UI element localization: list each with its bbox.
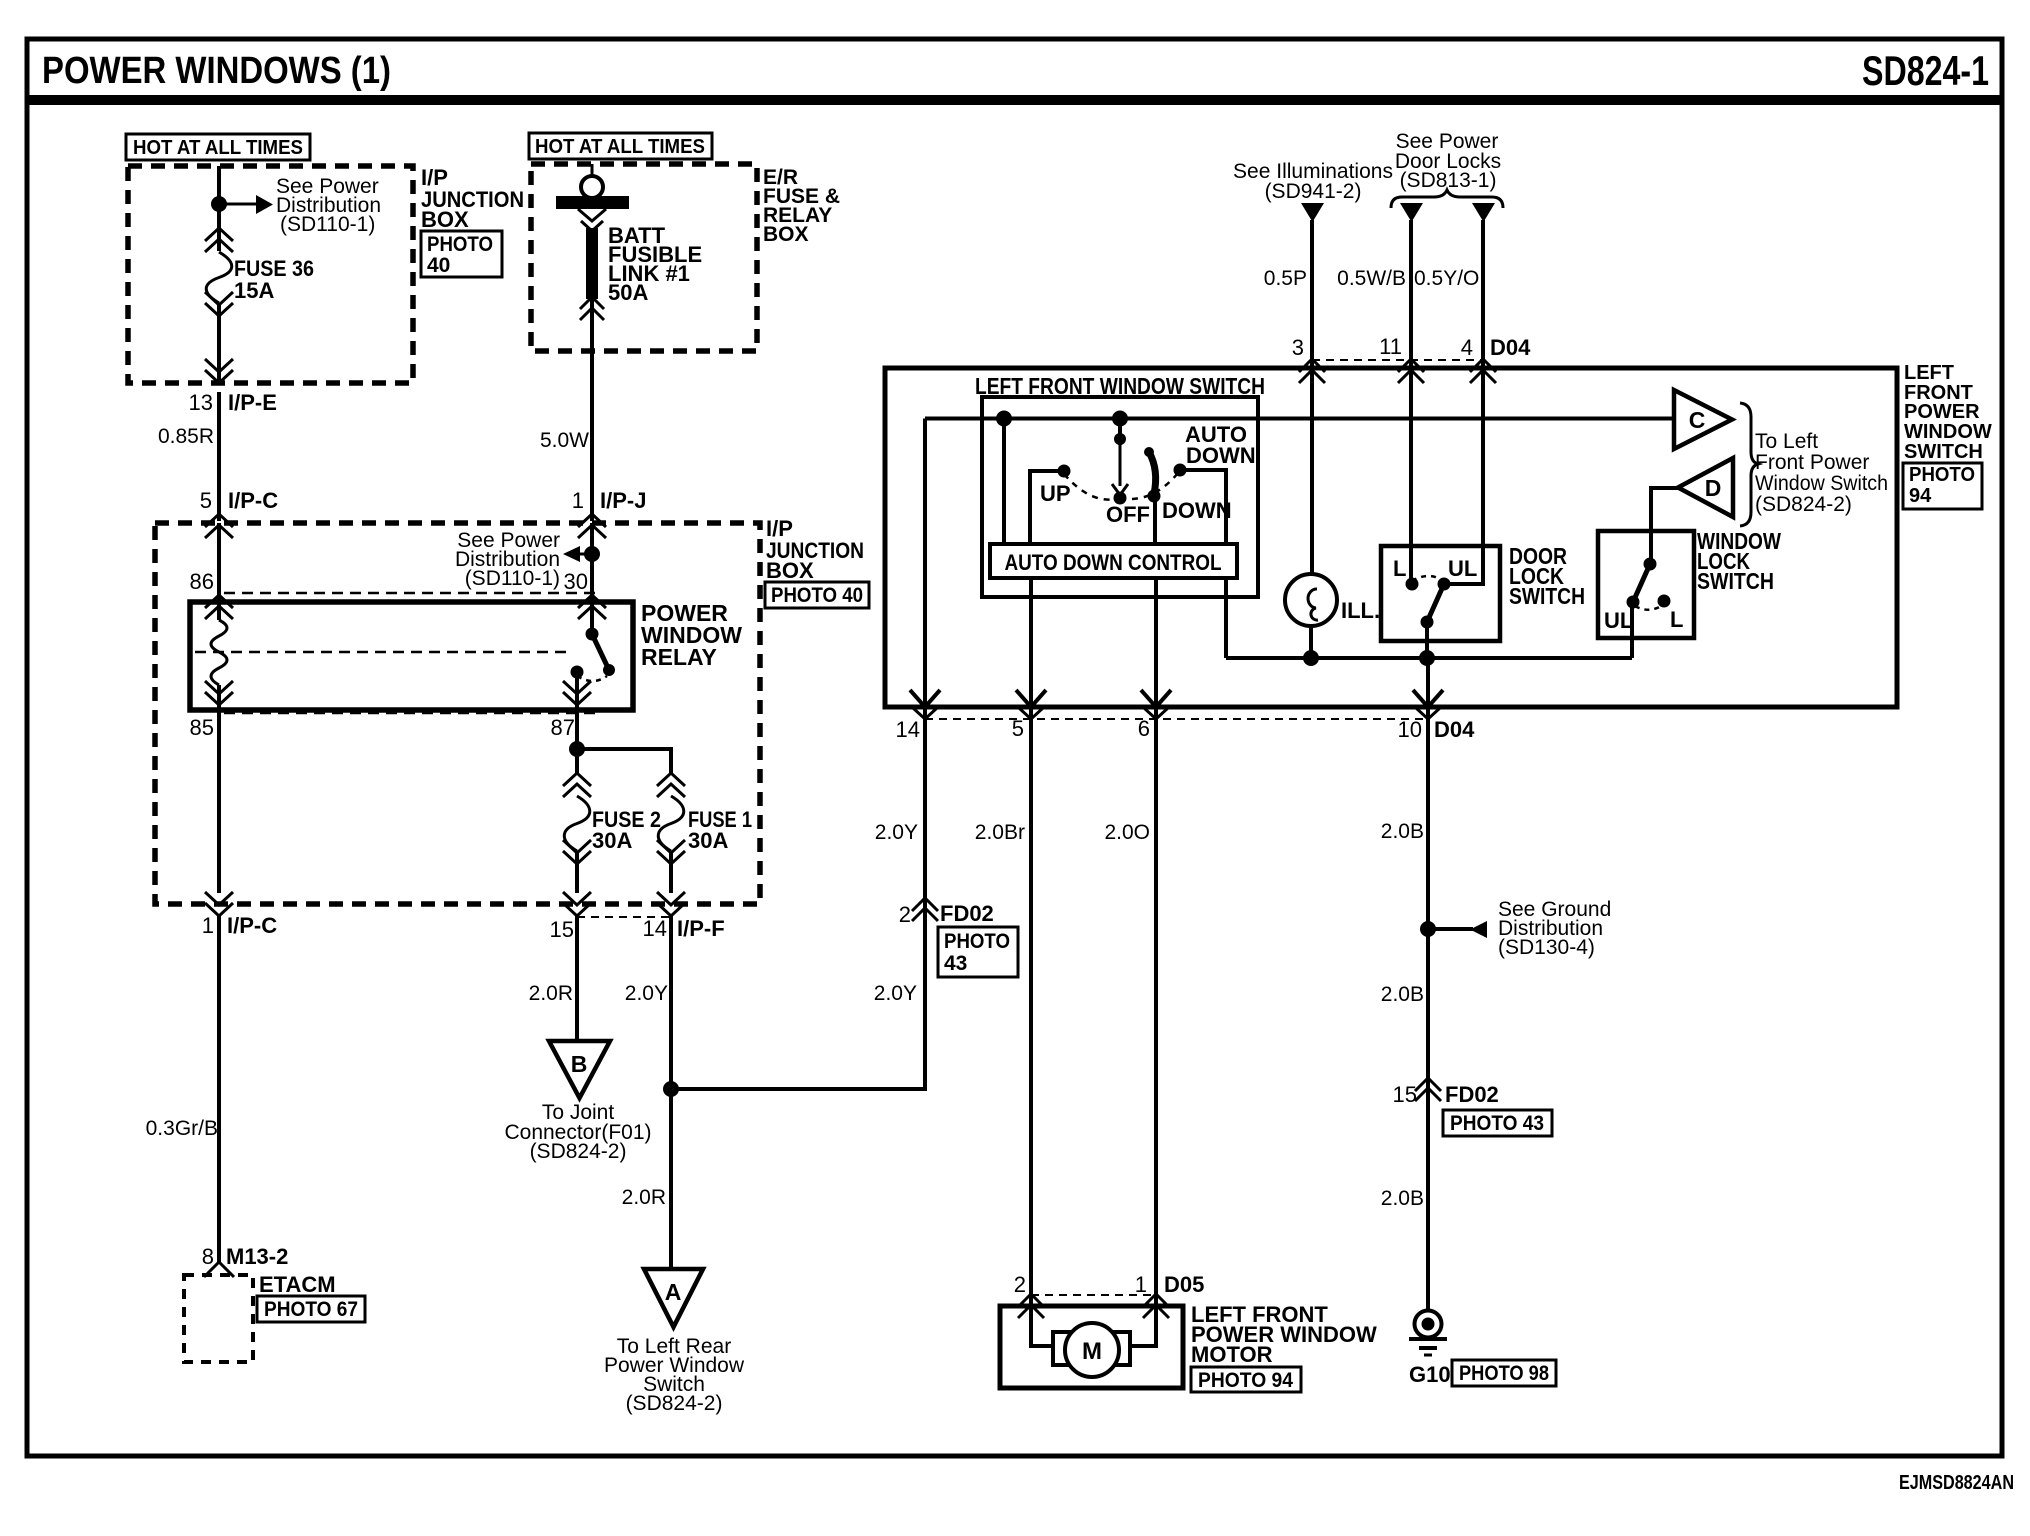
label box PHOTO 43 (pin 15) (1443, 1110, 1552, 1136)
svg-text:8: 8 (202, 1244, 214, 1269)
svg-text:0.5W/B: 0.5W/B (1337, 267, 1406, 290)
svg-text:I/P-C: I/P-C (228, 488, 278, 513)
relay internal dashed link (195, 651, 569, 654)
motor M left front power window motor box (1000, 1306, 1183, 1388)
pin 85 (205, 681, 233, 705)
label box PHOTO 40 (upper) (421, 231, 502, 277)
auto down control box (990, 544, 1237, 578)
svg-text:5.0W: 5.0W (540, 429, 589, 452)
svg-text:UL: UL (1448, 556, 1477, 581)
door lock travel arc (1412, 576, 1444, 581)
svg-text:(SD824-2): (SD824-2) (1755, 493, 1852, 516)
left front power window switch outer box (885, 368, 1897, 707)
svg-text:C: C (1689, 407, 1706, 433)
brace over door lock feeds (1391, 190, 1503, 208)
svg-text:2.0R: 2.0R (529, 982, 573, 1005)
svg-text:2.0R: 2.0R (622, 1186, 666, 1209)
label box PHOTO 67 (257, 1296, 365, 1322)
wire: I/P-C pin 5 to relay pin 86 (217, 523, 221, 620)
window lock switch box (1598, 531, 1694, 638)
label HOT AT ALL TIMES (left) (126, 134, 310, 160)
wire: relay 87 down to fuse junction (575, 678, 579, 773)
connector I/P-E pin 13 (205, 359, 233, 383)
svg-text:5: 5 (200, 488, 212, 513)
connector triangle A (644, 1269, 703, 1327)
wire: door lock UL feed (1450, 368, 1483, 584)
svg-text:BOX: BOX (763, 223, 809, 246)
svg-text:2.0B: 2.0B (1381, 983, 1424, 1006)
wire: door lock to bottom bus (1425, 622, 1429, 658)
svg-text:PHOTO 40: PHOTO 40 (771, 584, 863, 607)
relay coil (211, 620, 227, 685)
connector I/P-C pin 1 (bottom) (205, 892, 233, 916)
wire 5.0W (590, 299, 594, 521)
svg-text:UP: UP (1040, 481, 1071, 506)
svg-text:FD02: FD02 (940, 901, 994, 926)
svg-text:3: 3 (1292, 335, 1304, 360)
brace for C / D (1740, 403, 1758, 526)
wire: lamp to bottom bus (1309, 626, 1313, 658)
wire 2.0O (pin 6) (1154, 707, 1158, 1306)
svg-text:FD02: FD02 (1445, 1082, 1499, 1107)
feed arrow (door lock 1) (1400, 203, 1423, 222)
svg-text:2.0Y: 2.0Y (874, 982, 917, 1005)
connector D05 row pins 2 / 1 (1031, 1294, 1155, 1296)
svg-text:2: 2 (1014, 1272, 1026, 1297)
svg-text:2.0Y: 2.0Y (875, 821, 918, 844)
svg-text:15A: 15A (234, 278, 274, 303)
svg-text:40: 40 (427, 254, 450, 277)
motor brush tabs (1053, 1332, 1073, 1365)
wire 2.0R to triangle A (669, 1089, 673, 1269)
wire: relay 85 down to I/P-C pin 1 (217, 685, 221, 893)
window lock L contact (1658, 595, 1671, 608)
svg-text:LEFT: LEFT (1904, 362, 1954, 384)
wire 0.5W/B (1409, 220, 1413, 368)
svg-text:2.0Br: 2.0Br (975, 821, 1025, 844)
svg-text:M: M (1082, 1338, 1102, 1365)
node: ground distribution tap (1420, 921, 1436, 937)
wire: C bus across switch (925, 417, 1674, 421)
door lock lever (1427, 584, 1444, 622)
svg-text:30: 30 (564, 569, 588, 594)
svg-text:15: 15 (550, 917, 574, 942)
node: auto down control feed (996, 411, 1012, 427)
pin arrow at x=925 (910, 690, 940, 707)
I/P junction box (lower) dashed boundary (155, 523, 760, 904)
svg-text:EJMSD8824AN: EJMSD8824AN (1899, 1472, 2014, 1494)
wire: door lock L feed (1409, 368, 1413, 584)
switch DOWN contact (1174, 464, 1187, 477)
node: ground feed junction (1419, 650, 1435, 666)
svg-text:SWITCH: SWITCH (1904, 441, 1983, 463)
relay switch NO contact (571, 666, 584, 679)
svg-text:2.0B: 2.0B (1381, 1187, 1424, 1210)
svg-text:BOX: BOX (421, 207, 469, 232)
svg-text:6: 6 (1138, 716, 1150, 741)
wire: pin 5 riser (1029, 578, 1033, 707)
connector triangle C (1674, 390, 1732, 449)
door lock L contact (1406, 578, 1419, 591)
svg-text:SWITCH: SWITCH (1509, 583, 1585, 609)
svg-text:To Left: To Left (1755, 430, 1818, 453)
wire 0.85R (217, 392, 221, 521)
svg-text:B: B (571, 1051, 588, 1077)
svg-text:RELAY: RELAY (641, 644, 717, 670)
svg-text:OFF: OFF (1106, 502, 1150, 527)
inner window switch box (982, 397, 1258, 597)
connector triangle B (549, 1041, 610, 1098)
relay switch travel arc (577, 676, 607, 681)
wire: pin 14 riser (923, 419, 927, 708)
door lock switch box (1381, 546, 1500, 641)
relay connector dashed row pins 86 / 30 (224, 592, 595, 595)
node: power distribution tap at pin 30 (584, 546, 600, 562)
ETACM dashed box (184, 1275, 253, 1362)
svg-text:A: A (665, 1279, 682, 1305)
label box PHOTO 98 (1452, 1360, 1556, 1386)
door lock common contact (1421, 616, 1434, 629)
door lock UL contact (1438, 578, 1451, 591)
wire 0.3Gr/B to ETACM (217, 914, 221, 1262)
svg-text:L: L (1670, 607, 1683, 632)
svg-text:30A: 30A (592, 828, 632, 853)
wiper arrow (1119, 445, 1122, 486)
E/R fuse & relay box dashed boundary (531, 164, 757, 351)
svg-text:UL: UL (1604, 608, 1633, 633)
svg-text:50A: 50A (608, 280, 648, 305)
svg-text:I/P-E: I/P-E (228, 390, 277, 415)
connector I/P-F pins 15 / 14 (563, 892, 591, 916)
fuse F1 FUSE 1 30A (657, 773, 685, 797)
svg-text:14: 14 (643, 916, 667, 941)
connector FD02 pin 15 (1415, 1078, 1441, 1101)
wire: D to window lock switch (1651, 488, 1678, 564)
relay switch: common contact (586, 628, 599, 641)
svg-text:1: 1 (572, 488, 584, 513)
svg-text:PHOTO 43: PHOTO 43 (1450, 1112, 1544, 1135)
battery bus bar (556, 196, 629, 209)
relay connector dashed row pins 85 / 87 (224, 712, 595, 715)
svg-text:AUTO DOWN CONTROL: AUTO DOWN CONTROL (1005, 550, 1222, 575)
svg-text:BOX: BOX (766, 558, 814, 583)
wire to switch wiper (1118, 419, 1122, 446)
svg-text:(SD824-2): (SD824-2) (530, 1140, 627, 1163)
pin arrow at x=1156 (1141, 690, 1171, 707)
svg-text:L: L (1393, 556, 1406, 581)
wire 2.0Y (pin 14) (923, 707, 927, 924)
wire 0.5P (1310, 220, 1314, 368)
wire stubs from fuses to box edge (575, 851, 579, 893)
wire: pin 6 riser (1154, 578, 1158, 707)
label box PHOTO 94 (motor) (1191, 1367, 1301, 1392)
svg-text:(SD824-2): (SD824-2) (626, 1392, 723, 1415)
svg-text:G10: G10 (1409, 1362, 1451, 1387)
relay U1 POWER WINDOW RELAY box (190, 602, 633, 710)
svg-text:WINDOW: WINDOW (1904, 421, 1992, 443)
wire: junction to fuse 1 (577, 749, 671, 773)
pin arrow at x=1428 (1413, 690, 1443, 707)
label box PHOTO 40 (lower) (765, 582, 869, 608)
svg-text:14: 14 (896, 717, 920, 742)
svg-text:2: 2 (899, 902, 911, 927)
switch lever (auto down) (1144, 447, 1154, 457)
illumination lamp ILL. (1285, 574, 1337, 626)
svg-text:2.0B: 2.0B (1381, 820, 1424, 843)
wire: down-lock riser (1224, 578, 1228, 658)
svg-text:94: 94 (1909, 485, 1932, 507)
svg-text:(SD941-2): (SD941-2) (1265, 180, 1362, 203)
svg-text:0.5Y/O: 0.5Y/O (1414, 267, 1479, 290)
connector triangle D (1678, 458, 1733, 517)
svg-text:86: 86 (190, 569, 214, 594)
svg-text:PHOTO: PHOTO (1909, 464, 1975, 486)
svg-text:Window Switch: Window Switch (1755, 472, 1888, 495)
wire: I/P-J pin 1 to relay pin 30 (590, 523, 594, 634)
wire: battery feed into fuse 36 (217, 166, 221, 251)
node: 2.0Y / 2.0R junction (663, 1081, 679, 1097)
svg-text:15: 15 (1393, 1082, 1417, 1107)
svg-text:1: 1 (1135, 1272, 1147, 1297)
wire: fuse 36 to connector I/P-E (217, 303, 221, 383)
wire: illumination lamp feed (1310, 368, 1314, 576)
fuse F2 FUSE 2 30A (563, 773, 591, 797)
feed arrow (door lock 2) (1472, 203, 1495, 222)
svg-text:SD824-1: SD824-1 (1862, 47, 1989, 94)
svg-text:10: 10 (1398, 717, 1422, 742)
label box PHOTO 94 (switch) (1903, 463, 1982, 509)
switch lever contact to auto down control (1148, 490, 1161, 503)
svg-text:PHOTO: PHOTO (944, 930, 1010, 953)
svg-text:(SD130-4): (SD130-4) (1498, 936, 1595, 959)
svg-text:0.3Gr/B: 0.3Gr/B (146, 1117, 218, 1140)
svg-text:D04: D04 (1434, 717, 1475, 742)
svg-text:I/P-J: I/P-J (600, 488, 646, 513)
wire 0.5Y/O (1481, 220, 1485, 368)
svg-text:ILL.: ILL. (1341, 598, 1380, 623)
relay switch lever (592, 634, 609, 670)
svg-text:POWER: POWER (1904, 401, 1980, 423)
wire: window lock to bottom bus (1630, 602, 1634, 658)
svg-text:1: 1 (202, 913, 214, 938)
wire 2.0Y from I/P-F 14 down (669, 914, 673, 1089)
pin arrow at x=1031 (1016, 690, 1046, 707)
wire 2.0R to triangle B (575, 914, 579, 1041)
feed arrow (illumination) (1301, 203, 1324, 222)
svg-text:I/P-C: I/P-C (227, 913, 277, 938)
svg-text:13: 13 (189, 390, 213, 415)
svg-text:PHOTO 98: PHOTO 98 (1459, 1362, 1549, 1385)
wire 2.0Br (pin 5) (1029, 707, 1033, 1306)
node: fuse feed junction (569, 741, 585, 757)
svg-text:(SD110-1): (SD110-1) (280, 213, 375, 236)
wire 2.0B (pin 10) (1426, 658, 1430, 707)
svg-text:HOT AT ALL TIMES: HOT AT ALL TIMES (133, 136, 303, 159)
title separator bar (27, 95, 2002, 105)
svg-text:0.85R: 0.85R (158, 425, 214, 448)
pin 87 (563, 681, 591, 705)
svg-text:DOWN: DOWN (1186, 443, 1256, 468)
fuse F36 FUSE 36 15A (205, 228, 233, 252)
switch UP contact (1058, 465, 1071, 478)
svg-text:43: 43 (944, 952, 967, 975)
svg-text:SWITCH: SWITCH (1697, 568, 1774, 594)
svg-text:30A: 30A (688, 828, 728, 853)
wire: pin 1 into motor (1126, 1306, 1156, 1346)
window lock UL contact (1627, 596, 1640, 609)
svg-text:0.5P: 0.5P (1264, 267, 1307, 290)
connector FD02 pin 2 (912, 898, 938, 921)
connector D04 bottom row pins 14 / 5 / 6 / 10 (925, 718, 1428, 720)
svg-text:85: 85 (190, 715, 214, 740)
svg-text:PHOTO 67: PHOTO 67 (264, 1298, 358, 1321)
wire: pin 2 into motor (1031, 1306, 1060, 1346)
arrow: See Power Distribution (SD110-1) (219, 203, 256, 206)
node: power distribution tap (211, 196, 227, 212)
connector chevrons below bus bar (578, 209, 606, 231)
svg-text:M13-2: M13-2 (226, 1244, 288, 1269)
fusible link BATT FUSIBLE LINK #1 50A (586, 228, 598, 299)
svg-text:I/P-F: I/P-F (677, 916, 725, 941)
svg-text:D: D (1705, 475, 1722, 501)
motor body (1065, 1323, 1119, 1377)
window lock lever (1633, 564, 1650, 602)
wire: DOWN contact to right riser (1180, 470, 1226, 544)
connector D04 top row pins 3 / 11 / 4 (1312, 359, 1483, 361)
window lock travel arc (1635, 605, 1663, 610)
svg-text:5: 5 (1012, 716, 1024, 741)
node: lamp junction (1303, 650, 1319, 666)
wire: UP contact to auto down control (1030, 471, 1064, 544)
switch OFF contact (1114, 492, 1127, 505)
label box PHOTO 43 (pin 2) (938, 927, 1018, 977)
node: wiper feed (1112, 411, 1128, 427)
svg-text:(SD110-1): (SD110-1) (465, 567, 560, 590)
svg-text:87: 87 (551, 715, 575, 740)
arrow: See Power Distribution (SD110-1) (580, 553, 592, 556)
I/P junction box (upper) dashed boundary (128, 166, 413, 383)
switch travel arc (1064, 474, 1120, 500)
label HOT AT ALL TIMES (right) (529, 133, 712, 159)
svg-text:2.0O: 2.0O (1104, 821, 1150, 844)
svg-text:Front Power: Front Power (1755, 451, 1869, 474)
svg-text:2.0Y: 2.0Y (625, 982, 668, 1005)
svg-text:D04: D04 (1490, 335, 1531, 360)
svg-text:MOTOR: MOTOR (1191, 1342, 1273, 1367)
svg-text:PHOTO: PHOTO (427, 233, 493, 256)
svg-text:ETACM: ETACM (259, 1272, 336, 1297)
svg-text:11: 11 (1379, 334, 1402, 359)
wire: switch bottom bus (1226, 656, 1632, 660)
svg-text:POWER WINDOWS (1): POWER WINDOWS (1) (42, 50, 391, 92)
svg-text:DOWN: DOWN (1162, 498, 1232, 523)
svg-text:D05: D05 (1164, 1272, 1204, 1297)
battery terminal ring (591, 164, 594, 176)
svg-text:4: 4 (1461, 335, 1473, 360)
svg-text:HOT AT ALL TIMES: HOT AT ALL TIMES (535, 135, 705, 158)
wire across to window switch feed (671, 922, 925, 1089)
arrow: See Ground Distribution (SD130-4) (1428, 927, 1473, 931)
window lock common contact (1644, 558, 1657, 571)
svg-text:PHOTO 94: PHOTO 94 (1198, 1369, 1293, 1392)
ground G10 symbol (1415, 1311, 1442, 1338)
wire to auto down control (1002, 419, 1006, 545)
